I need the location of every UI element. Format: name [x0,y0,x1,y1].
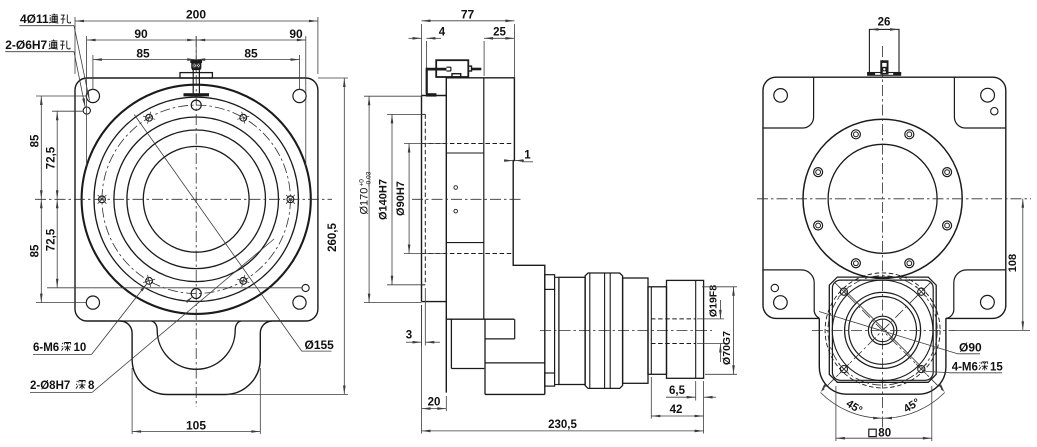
svg-text:108: 108 [1007,254,1019,272]
left view: corner hole D11 top-right [293,89,306,102]
side view: dim 4 line with outside arrows [409,37,422,39]
rear view: corner hole D11 top-left [774,89,788,103]
svg-text:8: 8 [88,380,95,392]
side view: dim 77 extension lines [421,24,423,96]
rear view: motor body rounded square [832,280,933,380]
side view: motor ring lines [589,273,591,388]
rear view: plate outline [772,317,829,319]
rear view: 8 socket head screws [943,168,952,177]
side view: dim D170 tolerance text (rotated) [359,171,373,214]
left view: dim 200 line [75,20,318,22]
side view: dim D90H7 extension lines [404,143,447,145]
left view: connector mounting plate on plate top [180,73,212,78]
left view: left dim 85/85 vertical line [40,96,42,303]
rear view: vertical centerline [882,46,884,428]
svg-text:3: 3 [406,330,412,342]
side view: coupling housing tabs [545,275,555,290]
svg-text:4: 4 [439,27,446,39]
rear view: bottom-left ear contour [762,270,819,318]
svg-text:Ø155: Ø155 [305,338,335,352]
rear view: rear opening circle [803,119,962,278]
side view: output flange front face [421,96,423,302]
left view: bottom bell extension outline [120,321,272,395]
svg-text:6-M6: 6-M6 [33,342,59,354]
side view: plate bottom edge [446,318,514,320]
svg-text:200: 200 [186,8,206,22]
left view: dim 90 line [87,39,306,41]
rear view: dim 108 extension line [952,329,1030,331]
rear view: dim square80 line [836,437,932,439]
left view: dim 260.5 vertical line [343,78,345,395]
left view: bolt circle D155 (centerline) [102,105,290,293]
svg-text:10: 10 [74,342,87,354]
rear view: label D90 with leader [819,312,958,354]
rear view: bell extension outline [819,318,946,394]
svg-text:2-Ø6H7: 2-Ø6H7 [5,38,47,52]
left view: dowel hole D8H7 top [191,100,201,110]
side view: face screw holes [454,186,458,190]
side view: dim D140H7 extension lines [387,113,425,115]
side view: dim D70G7 line [733,287,735,375]
rear view: bore circle D90H7 [828,144,937,253]
left view: dim 90/90 extension lines [86,36,88,166]
rear view: flange corner circle [832,280,933,381]
rear view: dim 108 line [1022,199,1024,331]
svg-text:85: 85 [30,244,42,257]
side view: dim 4 extension line [425,41,427,93]
rear view: flange horizontal centerline [812,329,955,331]
svg-text:20: 20 [428,396,441,408]
rear view: 4x M6 holes on D90 [840,288,847,295]
side view: dim 25 line [484,37,514,39]
left view: dim 260.5 extension lines [318,77,348,79]
rear view: motor pilot dashed circle [825,273,940,388]
side view: connector pin rod [472,68,482,71]
rear view: dim square80 text [869,429,876,436]
svg-text:Ø140H7: Ø140H7 [378,179,390,220]
left view: dim 85/85 extension lines [92,55,94,90]
side view: coupling spacer lines [555,276,559,278]
side view: motor rear section [623,278,648,383]
side view: D140 recess hidden stubs [422,113,426,115]
rear view: connector foot flange [868,73,901,76]
left view: dim 85 line [93,59,300,61]
left view: pin hole D6H7 upper-left [83,107,90,114]
side view: horizontal centerline [412,198,521,200]
rear view: corner hole D11 top-right [981,88,995,102]
side view: bell extension front block [450,319,452,368]
svg-text:2-Ø8H7: 2-Ø8H7 [30,380,70,392]
left view: leader to D11 hole [19,25,74,27]
svg-text:4Ø11: 4Ø11 [20,12,49,26]
svg-text:72,5: 72,5 [46,228,58,251]
svg-text:85: 85 [244,46,258,60]
side view: hidden shaft bore D19 [651,318,696,320]
side view: connector bottom tab [452,74,461,77]
left view: label D155 with leader through center [134,115,302,352]
left view: extension line upper pin hole row [52,110,84,112]
side view: dim 42 extension lines [650,377,652,419]
side view: gear stub [485,338,515,340]
left view: left dim 72.5 vertical line [56,111,58,288]
side view: dim D19F8 line with outside arrows [719,300,721,319]
side view: dim 25 extension line [483,41,485,76]
left view: leader to D6H7 hole [5,51,74,53]
side view: dim 42 line [651,415,703,417]
side view: dim D70G7 extension lines [702,286,737,288]
svg-text:80: 80 [878,428,891,440]
left view: leader 2-D8H7 through bottom dowel hole [30,392,92,394]
side view: connector pin block [468,66,471,71]
left view: extension line lower pin hole row [47,287,302,289]
svg-text:1: 1 [524,150,531,162]
side view: coupling cylinder [559,277,585,384]
svg-text:230,5: 230,5 [548,419,577,431]
left view: outer circle D190 (thick) [82,85,311,314]
side view: dim D170 extension lines [364,95,422,97]
side view: dim D19F8 extension lines [697,318,724,320]
side view: connector latch bar [426,68,446,71]
svg-text:105: 105 [186,419,206,433]
left view: horizontal centerline [35,198,332,200]
left view: corner hole D11 top-left [86,89,99,102]
side view: housing inner face line [483,78,485,319]
left view: top connector lower band [192,68,201,70]
side view: dim 3 line with outside arrows [406,341,422,343]
side view: dim D140H7 line [391,114,393,284]
side view: housing outline [446,78,545,395]
side view: motor body [585,273,623,388]
rear view: pin hole D6H7 top-right [991,108,998,115]
left view: dowel hole D8H7 bottom [191,289,201,299]
side view: dim D170 line [368,96,370,302]
svg-text:25: 25 [493,27,506,39]
svg-text:4-M6: 4-M6 [952,362,978,374]
left view: connector stem [192,70,194,93]
side view: output spigot D70 [648,287,667,375]
svg-text:26: 26 [878,17,891,29]
svg-text:Ø90: Ø90 [959,340,982,354]
left view: extension line upper hole row [36,95,87,97]
rear view: flange 45deg centerlines [835,282,945,392]
side view: recess bottom hidden line D140 [424,114,426,284]
left view: top connector body [192,63,201,68]
rear view: 45deg angular dimension arc [821,393,945,419]
rear view: top-right ear contour [954,77,1005,128]
left view: connector clamp bar (black) [184,93,210,96]
left view: bore circle D90 [143,146,249,252]
left view: pin hole D6H7 lower-right [302,284,309,291]
svg-text:260,5: 260,5 [327,223,339,252]
rear view: dim 26 arrows on box top [869,28,878,31]
side view: connector mounting bracket [426,68,428,94]
left view: top connector cap [190,60,202,63]
svg-text:90: 90 [134,27,148,41]
left view: dim 200 extension lines [74,17,76,74]
left view: extension line lower hole row [36,302,87,304]
rear view: pin hole D6H7 bottom-left [771,284,778,291]
side view: dim 3 extension lines [421,305,423,346]
svg-text:Ø19F8: Ø19F8 [708,285,720,317]
rear view: corner hole D11 bottom-right [981,295,995,309]
rear view: dim square80 extension lines [835,386,837,441]
side view: dim 77 line [422,20,515,22]
svg-text:Ø90H7: Ø90H7 [395,181,407,216]
svg-text:-0.03: -0.03 [366,171,373,186]
svg-text:77: 77 [461,7,475,21]
svg-text:6,5: 6,5 [669,385,686,397]
side view: bell extension deep block [484,319,486,394]
rear view: motor boss circles [845,292,921,368]
svg-text:+0: +0 [359,179,366,187]
side view: flange bottom edge [422,301,447,303]
svg-text:90: 90 [289,27,303,41]
left view: vertical centerline [195,36,197,407]
side view: end flange inner face line [695,280,697,378]
side view: dim D90H7 line [408,144,410,254]
svg-text:85: 85 [136,46,150,60]
side view: dim 6.5 line with outside arrows [666,396,696,398]
side view: end flange [667,280,704,378]
left view: dim 105 line [132,431,260,433]
rear view: label 4-M6 depth 15 with leader [843,289,926,372]
svg-text:42: 42 [670,404,683,416]
left view: face plate outline 200x200 [87,78,318,321]
side view: connector bracket foot (black) [426,93,436,96]
rear view: horizontal centerline [757,198,1031,200]
left view: plate bottom edge across extension [120,320,272,322]
side view: motor axis centerline [540,330,712,332]
rear view: connector pin block [880,60,888,74]
rear view: bolt circle D90 (centerline circle) [828,276,937,385]
svg-text:72,5: 72,5 [46,146,58,169]
left view: leader 6-M6 to hole [33,354,92,356]
side view: dim 20 extension line [445,396,447,411]
left view: corner hole D11 bottom-left [86,296,99,309]
side view: D90 bore hidden lines [422,143,514,145]
rear view: motor flange outer octagon [829,277,936,382]
side view: dim 230.5 line [422,430,704,432]
svg-text:85: 85 [30,134,42,147]
side view: dim 6.5 extension line [695,381,697,401]
rear view: corner hole D11 bottom-left [774,296,788,310]
svg-text:15: 15 [990,362,1003,374]
rear view: top-left ear contour [762,77,813,128]
left view: dim 105 extension lines [131,368,133,434]
left view: U-shaped cutout in extension [151,321,241,369]
side view: internal step lines [446,152,484,154]
side view: dim 20 line [422,408,447,410]
svg-text:Ø170: Ø170 [359,188,371,215]
left view: corner hole D11 bottom-right [293,296,306,309]
rear view: connector box [869,29,899,72]
rear view: shaft circles D19 [868,316,896,344]
side view: encoder connector box [436,60,468,77]
left view: circle D115 [127,130,266,269]
rear view: bottom-right ear contour [946,270,1006,319]
side view: dim 1 step [504,160,513,162]
left view: flange circle D170 [94,97,298,301]
svg-text:Ø70G7: Ø70G7 [721,331,733,365]
left view: 6x M6 tapped holes on bolt circle [287,196,294,203]
side view: flange top edge [422,95,447,97]
left view: circle D140 [114,117,279,282]
